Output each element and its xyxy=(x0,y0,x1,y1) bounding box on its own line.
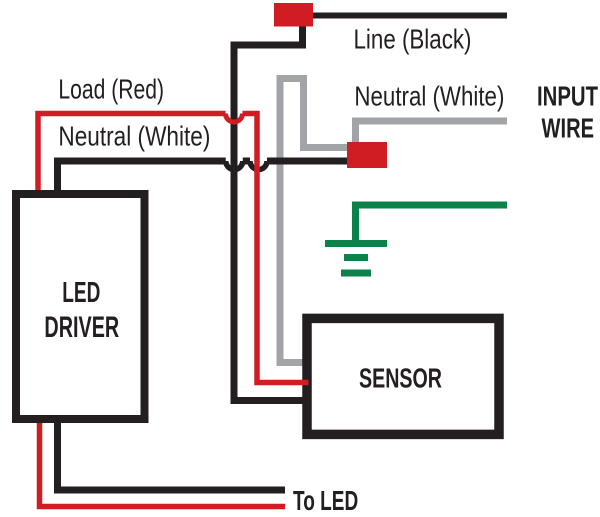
svg-text:LED: LED xyxy=(62,277,100,309)
svg-text:Neutral (White): Neutral (White) xyxy=(58,121,210,152)
svg-text:Line (Black): Line (Black) xyxy=(354,24,472,55)
svg-text:WIRE: WIRE xyxy=(542,113,595,144)
svg-text:SENSOR: SENSOR xyxy=(359,363,442,394)
svg-text:Neutral (White): Neutral (White) xyxy=(354,81,504,112)
svg-text:DRIVER: DRIVER xyxy=(44,311,119,344)
svg-text:Load (Red): Load (Red) xyxy=(58,74,164,105)
svg-text:To LED: To LED xyxy=(293,485,358,516)
svg-text:INPUT: INPUT xyxy=(537,81,598,112)
